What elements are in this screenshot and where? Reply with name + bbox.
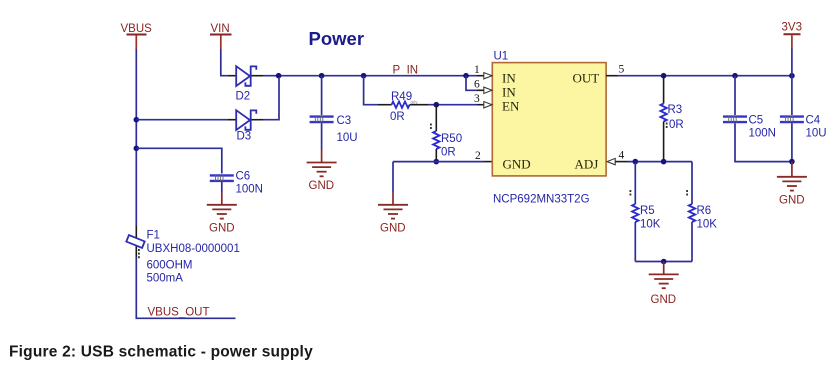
wire C6 to gnd — [221, 182, 223, 193]
svg-text:1: 1 — [474, 64, 480, 76]
svg-text:C5: C5 — [749, 115, 764, 127]
svg-text:VBUS_OUT: VBUS_OUT — [148, 307, 210, 319]
capacitor C5 — [723, 115, 776, 140]
svg-text:GND: GND — [309, 180, 335, 192]
power port VBUS — [121, 23, 153, 49]
resistor R6 — [689, 204, 717, 231]
marker R50 — [430, 124, 432, 130]
wire R5 top — [634, 162, 636, 204]
svg-text:10U: 10U — [806, 128, 827, 140]
pin 4 ADJ arrow — [607, 150, 628, 165]
junction R5 — [633, 159, 639, 165]
wire C3 branch — [321, 76, 323, 115]
capacitor C4 — [780, 115, 827, 140]
svg-text:2: 2 — [475, 150, 481, 162]
svg-text:5: 5 — [619, 64, 625, 76]
junction C4/C5 gnd — [789, 159, 795, 165]
wire ADJ row — [628, 161, 692, 163]
wire R3 bottom — [663, 122, 665, 162]
junction VBUS/C6 — [134, 146, 140, 152]
svg-text:D2: D2 — [236, 91, 251, 103]
ground C4C5 — [777, 177, 807, 191]
wire R49 branch — [364, 76, 378, 105]
svg-text:3: 3 — [474, 93, 480, 105]
capacitor C3 — [310, 115, 358, 144]
junction R50 top — [434, 102, 440, 108]
svg-text:GND: GND — [209, 223, 235, 235]
resistor R3 — [660, 104, 683, 132]
pin 1 arrow — [474, 64, 492, 79]
svg-text:Figure 2: USB schematic - powe: Figure 2: USB schematic - power supply — [9, 344, 313, 361]
ground U1 pin2 — [378, 205, 408, 219]
power port VIN — [210, 23, 232, 49]
svg-text:4: 4 — [619, 150, 625, 162]
svg-text:NCP692MN33T2G: NCP692MN33T2G — [493, 194, 590, 206]
wire gnd stem — [663, 262, 665, 274]
wire R5/R6 common — [635, 261, 692, 263]
wire R6 bottom — [691, 222, 693, 262]
wire VBUS_OUT horizontal — [136, 317, 236, 319]
wire C6 branch — [136, 148, 222, 173]
wire R6 top — [691, 162, 693, 204]
wire 3V3 to rail — [791, 49, 793, 76]
wire GND pin row — [484, 161, 492, 163]
wire R5 bottom — [634, 222, 636, 262]
wire VBUS vertical — [135, 49, 137, 226]
pin 6 branch — [466, 76, 492, 94]
svg-text:GND: GND — [651, 294, 677, 306]
svg-text:10K: 10K — [640, 219, 661, 231]
svg-text:GND: GND — [380, 223, 406, 235]
junction C3 — [319, 73, 325, 79]
ground C3 — [307, 163, 337, 177]
svg-text:P_IN: P_IN — [393, 65, 419, 77]
svg-text:3V3: 3V3 — [782, 22, 802, 34]
wire R3 top — [663, 76, 665, 104]
ground C6 — [207, 205, 237, 219]
svg-text:GND: GND — [503, 156, 531, 171]
wire C4 branch — [791, 76, 793, 115]
junction VBUS/D3 — [134, 117, 140, 123]
svg-text:tely: tely — [411, 100, 419, 105]
junction C5 top — [732, 73, 738, 79]
diode D3 — [236, 110, 256, 142]
svg-text:100N: 100N — [749, 128, 777, 140]
svg-text:100N: 100N — [236, 184, 264, 196]
svg-text:6: 6 — [474, 79, 480, 91]
svg-text:R6: R6 — [697, 205, 712, 217]
svg-text:OUT: OUT — [573, 71, 600, 86]
svg-text:10U: 10U — [337, 132, 358, 144]
resistor R49 — [390, 91, 418, 123]
marker R5 — [630, 190, 632, 196]
resistor R5 — [632, 204, 661, 231]
wire C5 branch — [734, 76, 736, 115]
wire D2 cathode — [252, 75, 264, 77]
svg-text:0R: 0R — [669, 119, 684, 131]
svg-text:VIN: VIN — [211, 23, 230, 35]
wire gnd stem right — [791, 162, 793, 177]
wire C3 to gnd — [321, 123, 323, 149]
marker R6 — [686, 190, 688, 196]
pin 3 arrow — [474, 93, 492, 108]
svg-text:U1: U1 — [494, 51, 509, 63]
svg-text:R49: R49 — [391, 91, 412, 103]
fuse F1 — [126, 230, 240, 285]
wire VIN down to D2 — [221, 49, 228, 76]
pin 5 OUT stub — [606, 64, 625, 76]
wire main rail P_IN — [263, 75, 477, 77]
svg-text:VBUS: VBUS — [121, 23, 153, 35]
svg-text:GND: GND — [779, 195, 805, 207]
diode D2 — [236, 66, 257, 102]
junction R5R6 gnd — [661, 259, 667, 265]
power port 3V3 — [782, 22, 802, 49]
junction pin6 branch — [463, 73, 469, 79]
svg-text:600OHM: 600OHM — [147, 260, 193, 272]
svg-text:F1: F1 — [147, 230, 160, 242]
svg-text:C6: C6 — [236, 171, 251, 183]
svg-text:Power: Power — [309, 28, 365, 49]
svg-text:0R: 0R — [441, 147, 456, 159]
wire C4 bottom — [791, 123, 793, 161]
junction R3 top — [661, 73, 667, 79]
svg-text:0R: 0R — [390, 111, 405, 123]
wire D3 row from VBUS — [136, 119, 228, 121]
wire OUT rail — [618, 75, 792, 77]
svg-text:ADJ: ADJ — [575, 156, 599, 171]
wire C5 bottom — [735, 123, 792, 161]
wire R50 top — [435, 105, 437, 131]
wire D3 cathode riser — [252, 119, 264, 121]
svg-text:EN: EN — [502, 99, 520, 114]
svg-text:R3: R3 — [668, 104, 683, 116]
svg-text:C4: C4 — [806, 115, 821, 127]
wire R50 bottom — [435, 149, 437, 162]
junction D3 riser — [276, 73, 282, 79]
wire R49 to EN — [410, 104, 428, 106]
resistor R50 — [433, 131, 462, 159]
op ic U1 body — [492, 51, 606, 176]
svg-text:R5: R5 — [640, 205, 655, 217]
svg-text:500mA: 500mA — [147, 273, 184, 285]
svg-text:IN: IN — [502, 71, 516, 86]
svg-text:D3: D3 — [237, 131, 252, 143]
svg-text:IN: IN — [502, 85, 516, 100]
junction C4 top — [789, 73, 795, 79]
capacitor C6 — [210, 171, 263, 196]
svg-text:R50: R50 — [441, 133, 462, 145]
junction R49 branch — [361, 73, 367, 79]
ground R5R6 — [649, 274, 679, 288]
junction R50/GND row — [434, 159, 440, 165]
svg-text:C3: C3 — [337, 115, 352, 127]
svg-text:10K: 10K — [697, 219, 718, 231]
junction R3 bottom — [661, 159, 667, 165]
svg-text:UBXH08-0000001: UBXH08-0000001 — [147, 243, 240, 255]
